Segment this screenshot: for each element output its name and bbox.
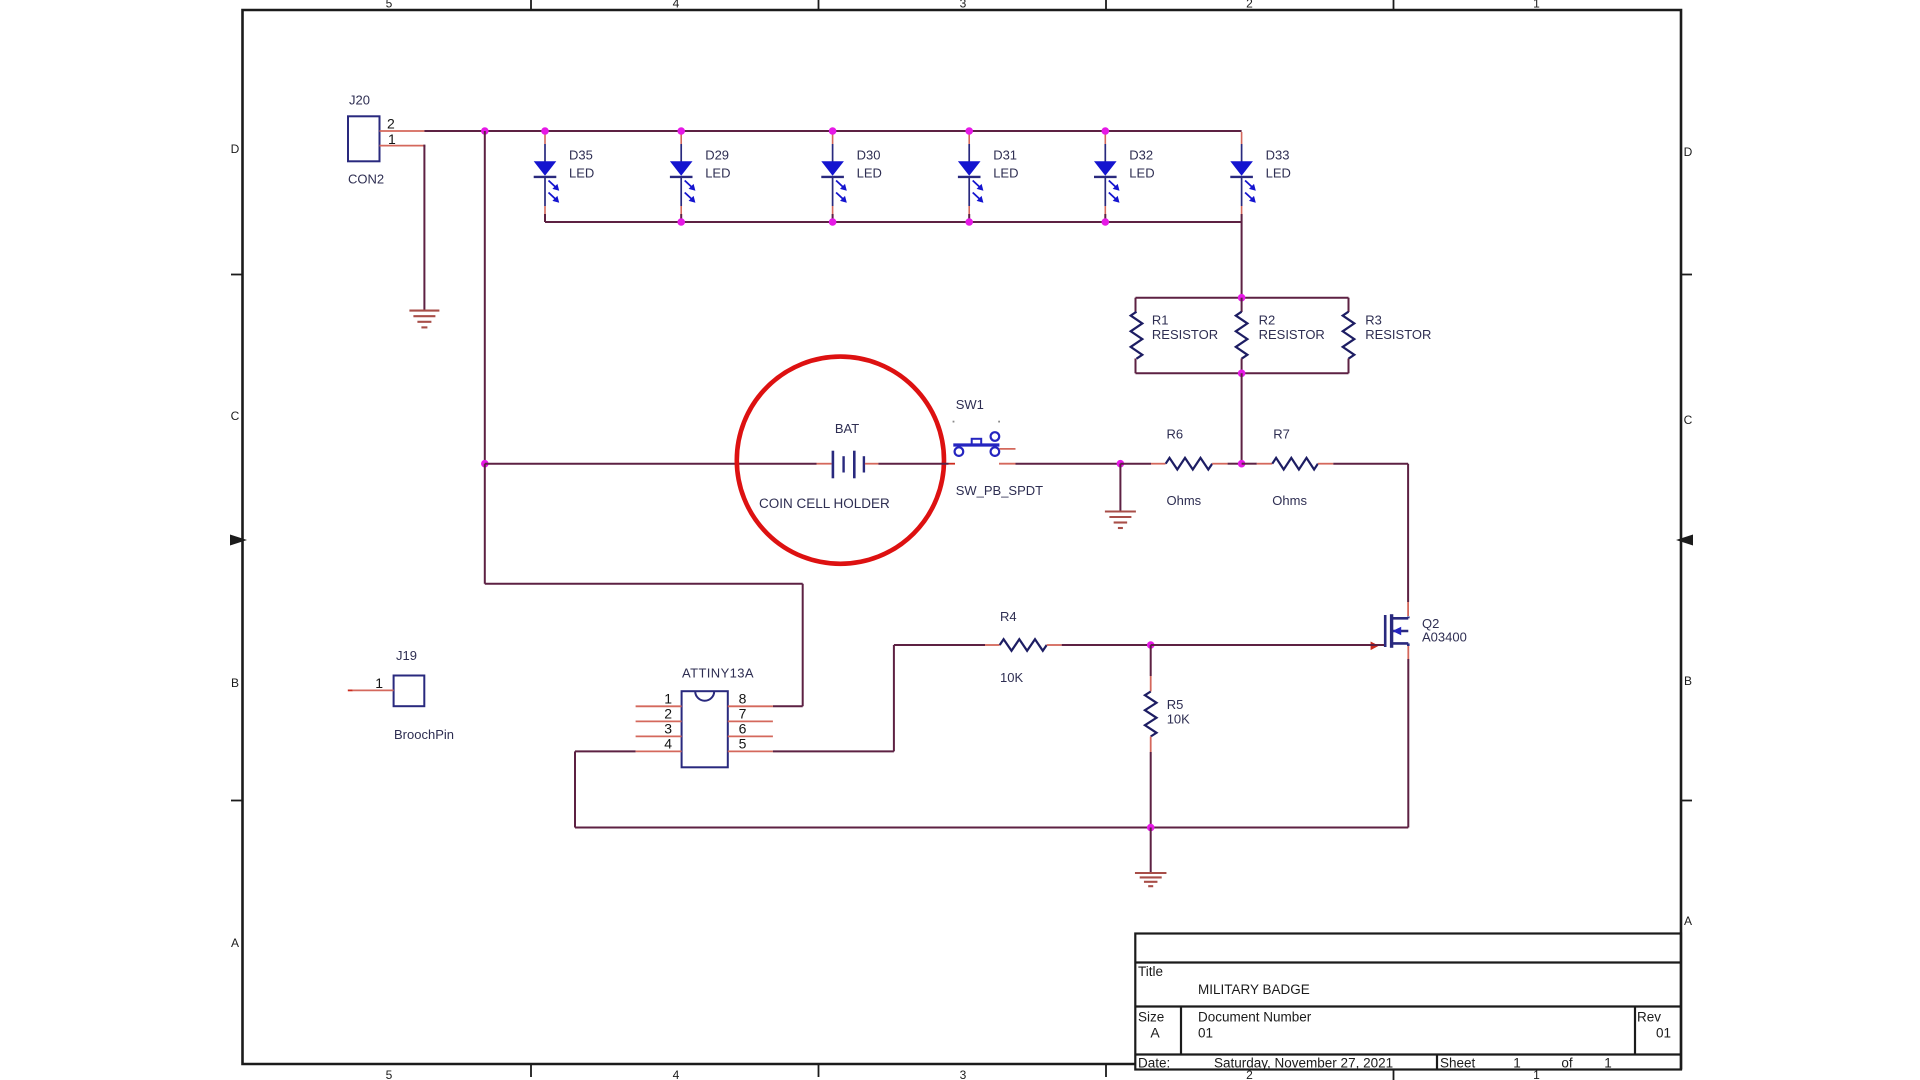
D30 value label LED bbox=[857, 166, 882, 181]
svg-text:1: 1 bbox=[1513, 1056, 1521, 1071]
ATTINY13A pin 8 bbox=[728, 705, 773, 707]
ATTINY13A value label bbox=[682, 666, 754, 681]
wire R bank down to mid rail bbox=[1241, 373, 1243, 463]
R3 refdes label bbox=[1365, 313, 1382, 328]
D29 refdes label bbox=[705, 148, 729, 163]
svg-text:COIN CELL HOLDER: COIN CELL HOLDER bbox=[759, 496, 890, 511]
R3 value label RESISTOR bbox=[1365, 327, 1431, 342]
wire ATTINY pin 4 to bottom rail bbox=[575, 751, 636, 827]
ATTINY13A pin 5 bbox=[728, 750, 773, 752]
svg-text:R7: R7 bbox=[1273, 427, 1290, 442]
svg-text:Rev: Rev bbox=[1637, 1010, 1661, 1025]
J20 refdes label bbox=[349, 93, 370, 108]
svg-text:5: 5 bbox=[386, 1068, 393, 1080]
svg-text:D33: D33 bbox=[1266, 148, 1290, 163]
svg-text:R1: R1 bbox=[1152, 313, 1169, 328]
ATTINY13A pin 1 number bbox=[664, 690, 672, 706]
Q2 gate input red arrow bbox=[1371, 642, 1379, 651]
svg-text:J20: J20 bbox=[349, 93, 370, 108]
junction R bank top bbox=[1238, 294, 1246, 302]
ATTINY13A pin 3 bbox=[636, 735, 682, 737]
svg-text:1: 1 bbox=[1604, 1056, 1612, 1071]
wire battery rail left segment bbox=[485, 463, 832, 465]
BAT value label COIN CELL HOLDER bbox=[759, 496, 890, 511]
svg-text:SW1: SW1 bbox=[956, 397, 984, 412]
svg-text:6: 6 bbox=[739, 720, 747, 736]
IC U1 ATTINY13A body bbox=[682, 691, 728, 767]
junction mid rail at R bank drop bbox=[1238, 460, 1246, 468]
wire D33 cathode rail down to R1R2R3 bank bbox=[1241, 222, 1243, 298]
svg-text:01: 01 bbox=[1198, 1026, 1213, 1041]
junction top rail at D32 bbox=[1102, 127, 1110, 135]
svg-text:of: of bbox=[1561, 1056, 1573, 1071]
svg-text:C: C bbox=[1684, 413, 1693, 427]
wire R1R2R3 top bus bbox=[1136, 298, 1349, 312]
R6 refdes label bbox=[1167, 427, 1184, 442]
svg-text:MILITARY BADGE: MILITARY BADGE bbox=[1198, 982, 1310, 997]
svg-text:1: 1 bbox=[1533, 0, 1540, 11]
resistor R3 bbox=[1343, 312, 1355, 359]
LED D30 bbox=[821, 132, 847, 222]
svg-text:01: 01 bbox=[1656, 1026, 1671, 1041]
ground at bottom rail bbox=[1135, 873, 1167, 886]
R2 refdes label bbox=[1259, 313, 1276, 328]
wire R7 to Q2 drain bbox=[1407, 464, 1409, 616]
J20 pin 2 bbox=[380, 130, 425, 132]
D30 refdes label bbox=[857, 148, 881, 163]
svg-text:A03400: A03400 bbox=[1422, 630, 1467, 645]
svg-text:B: B bbox=[1684, 674, 1692, 688]
svg-text:D35: D35 bbox=[569, 148, 593, 163]
ATTINY13A pin 7 number bbox=[739, 705, 747, 721]
svg-text:5: 5 bbox=[386, 0, 393, 11]
svg-text:1: 1 bbox=[388, 131, 396, 147]
ATTINY13A pin 7 bbox=[728, 720, 773, 722]
title block bbox=[1135, 934, 1681, 1071]
wire battery rail to ATTINY pin 8 bbox=[485, 464, 803, 707]
wire LED anode top rail bbox=[485, 130, 1242, 132]
wire ATTINY pin5 up to R4 bbox=[894, 645, 1000, 751]
LED D32 bbox=[1094, 132, 1120, 222]
junction top rail at D31 bbox=[965, 127, 973, 135]
resistor R1 bbox=[1131, 312, 1143, 359]
R6 value label Ohms bbox=[1167, 493, 1202, 508]
svg-text:7: 7 bbox=[739, 705, 747, 721]
R7 value label Ohms bbox=[1272, 493, 1307, 508]
svg-text:D30: D30 bbox=[857, 148, 881, 163]
svg-text:RESISTOR: RESISTOR bbox=[1259, 327, 1325, 342]
D35 value label LED bbox=[569, 166, 594, 181]
ATTINY13A pin 8 number bbox=[739, 690, 747, 706]
J19 value label BroochPin bbox=[394, 727, 454, 742]
R5 refdes label bbox=[1167, 697, 1184, 712]
D32 refdes label bbox=[1129, 148, 1153, 163]
LED D31 bbox=[958, 132, 984, 222]
svg-text:4: 4 bbox=[673, 0, 680, 11]
svg-text:LED: LED bbox=[569, 166, 594, 181]
resistor R5 bbox=[1145, 645, 1157, 828]
wire R1R2R3 bottom bus bbox=[1136, 359, 1349, 374]
junction mid rail at ground branch bbox=[1117, 460, 1125, 468]
svg-text:BroochPin: BroochPin bbox=[394, 727, 454, 742]
svg-text:4: 4 bbox=[664, 735, 672, 751]
ATTINY13A pin 2 bbox=[636, 720, 682, 722]
svg-text:LED: LED bbox=[705, 166, 730, 181]
svg-text:2: 2 bbox=[387, 115, 395, 131]
connector J20 bbox=[348, 116, 380, 161]
resistor R4 bbox=[1000, 639, 1151, 651]
svg-text:3: 3 bbox=[960, 1068, 967, 1080]
junction bottom rail at D31 bbox=[965, 218, 973, 226]
junction top rail at D35 bbox=[541, 127, 549, 135]
svg-text:LED: LED bbox=[1266, 166, 1291, 181]
R1 refdes label bbox=[1152, 313, 1169, 328]
ATTINY13A pin 4 number bbox=[664, 735, 672, 751]
junction bottom rail at D29 bbox=[677, 218, 685, 226]
ATTINY13A pin 1 bbox=[636, 705, 682, 707]
svg-text:Size: Size bbox=[1138, 1010, 1164, 1025]
svg-text:1: 1 bbox=[664, 690, 672, 706]
J20 pin 2 number bbox=[387, 115, 395, 131]
Q2 refdes label bbox=[1422, 616, 1439, 631]
SW1 value label SW_PB_SPDT bbox=[956, 483, 1043, 498]
R4 value label 10K bbox=[1000, 670, 1023, 685]
wire LED cathode bottom rail bbox=[545, 221, 1242, 223]
wire bottom ground rail bbox=[575, 827, 1408, 829]
BAT refdes label bbox=[835, 421, 859, 436]
J20 pin 1 number bbox=[388, 131, 396, 147]
svg-text:8: 8 bbox=[739, 690, 747, 706]
LED D29 bbox=[670, 132, 696, 222]
svg-text:RESISTOR: RESISTOR bbox=[1152, 327, 1218, 342]
wire bottom rail down to ground bbox=[1150, 828, 1152, 873]
ground at switch net bbox=[1105, 512, 1136, 529]
wire J20 pin 2 to LED top rail bbox=[424, 130, 484, 132]
ATTINY13A pin 5 number bbox=[739, 735, 747, 751]
svg-text:D31: D31 bbox=[993, 148, 1017, 163]
wire Q2 source down to bottom rail bbox=[1407, 646, 1409, 828]
svg-text:CON2: CON2 bbox=[348, 172, 384, 187]
svg-text:2: 2 bbox=[664, 705, 672, 721]
svg-text:Saturday, November 27, 2021: Saturday, November 27, 2021 bbox=[1214, 1056, 1393, 1071]
svg-text:J19: J19 bbox=[396, 648, 417, 663]
svg-text:Date:: Date: bbox=[1138, 1056, 1170, 1071]
wire battery right to switch bbox=[865, 463, 955, 465]
svg-text:D29: D29 bbox=[705, 148, 729, 163]
svg-text:R3: R3 bbox=[1365, 313, 1382, 328]
red highlight circle annotation bbox=[737, 357, 944, 564]
ATTINY13A pin 3 number bbox=[664, 720, 672, 736]
battery BAT coin cell bbox=[833, 451, 864, 479]
svg-text:10K: 10K bbox=[1167, 711, 1190, 726]
svg-text:2: 2 bbox=[1246, 0, 1253, 11]
svg-text:A: A bbox=[1684, 914, 1692, 928]
svg-text:Title: Title bbox=[1138, 964, 1163, 979]
svg-text:R4: R4 bbox=[1000, 609, 1017, 624]
J20 pin 1 bbox=[380, 145, 425, 147]
svg-text:LED: LED bbox=[1129, 166, 1154, 181]
J20 value label CON2 bbox=[348, 172, 384, 187]
connector J19 bbox=[394, 676, 425, 707]
wire J20 pin 1 down to ground bbox=[423, 145, 425, 310]
junction bottom rail at R5 bbox=[1147, 824, 1155, 832]
SW1 pin stub right bbox=[999, 448, 1015, 450]
svg-text:R5: R5 bbox=[1167, 697, 1184, 712]
ATTINY13A pin 2 number bbox=[664, 705, 672, 721]
wire ATTINY pin 5 stub extension bbox=[773, 750, 894, 752]
J19 refdes label bbox=[396, 648, 417, 663]
wire switch to R6 bbox=[999, 463, 1120, 465]
svg-text:Sheet: Sheet bbox=[1440, 1056, 1476, 1071]
Q2 value label A03400 bbox=[1422, 630, 1467, 645]
R7 refdes label bbox=[1273, 427, 1290, 442]
svg-text:SW_PB_SPDT: SW_PB_SPDT bbox=[956, 483, 1043, 498]
resistor R6 bbox=[1120, 458, 1241, 470]
transistor Q2 A03400 MOSFET bbox=[1385, 614, 1408, 648]
svg-text:LED: LED bbox=[857, 166, 882, 181]
LED D35 bbox=[534, 132, 560, 222]
wire top rail branch down to battery rail bbox=[484, 131, 486, 464]
D32 value label LED bbox=[1129, 166, 1154, 181]
SW1 refdes label bbox=[956, 397, 984, 412]
svg-text:D: D bbox=[231, 142, 240, 156]
D35 refdes label bbox=[569, 148, 593, 163]
resistor R7 bbox=[1242, 458, 1409, 470]
svg-text:4: 4 bbox=[673, 1068, 680, 1080]
svg-text:Ohms: Ohms bbox=[1167, 493, 1202, 508]
svg-text:A: A bbox=[231, 936, 239, 950]
svg-text:A: A bbox=[1150, 1025, 1160, 1041]
D33 value label LED bbox=[1266, 166, 1291, 181]
svg-text:LED: LED bbox=[993, 166, 1018, 181]
J19 pin 1 number bbox=[375, 675, 383, 691]
svg-text:D32: D32 bbox=[1129, 148, 1153, 163]
D29 value label LED bbox=[705, 166, 730, 181]
resistor R2 bbox=[1236, 298, 1248, 374]
junction bottom rail at D30 bbox=[829, 218, 837, 226]
junction battery rail left bbox=[481, 460, 489, 468]
R1 value label RESISTOR bbox=[1152, 327, 1218, 342]
D31 refdes label bbox=[993, 148, 1017, 163]
svg-text:ATTINY13A: ATTINY13A bbox=[682, 666, 754, 681]
svg-text:Document Number: Document Number bbox=[1198, 1010, 1312, 1025]
svg-text:BAT: BAT bbox=[835, 421, 859, 436]
junction R4 / R5 node bbox=[1147, 641, 1155, 649]
ground at J20 pin 1 bbox=[409, 311, 439, 328]
svg-text:10K: 10K bbox=[1000, 670, 1023, 685]
ATTINY13A pin 6 bbox=[728, 735, 773, 737]
svg-text:3: 3 bbox=[664, 720, 672, 736]
svg-text:Ohms: Ohms bbox=[1272, 493, 1307, 508]
D31 value label LED bbox=[993, 166, 1018, 181]
switch SW1 SW_PB_SPDT bbox=[953, 421, 1000, 456]
J19 pin 1 bbox=[348, 689, 394, 691]
svg-text:D: D bbox=[1684, 145, 1693, 159]
ATTINY13A pin 4 bbox=[636, 750, 682, 752]
svg-text:RESISTOR: RESISTOR bbox=[1365, 327, 1431, 342]
svg-text:C: C bbox=[231, 409, 240, 423]
svg-text:1: 1 bbox=[375, 675, 383, 691]
D33 refdes label bbox=[1266, 148, 1290, 163]
svg-text:R2: R2 bbox=[1259, 313, 1276, 328]
junction top rail at D29 bbox=[677, 127, 685, 135]
wire R4 node to Q2 gate bbox=[1151, 644, 1384, 646]
svg-text:B: B bbox=[231, 676, 239, 690]
svg-text:3: 3 bbox=[960, 0, 967, 11]
ATTINY13A pin 6 number bbox=[739, 720, 747, 736]
junction top rail at D30 bbox=[829, 127, 837, 135]
R4 refdes label bbox=[1000, 609, 1017, 624]
wire junction down to ground bbox=[1119, 464, 1121, 511]
junction top rail / battery branch bbox=[481, 127, 489, 135]
svg-text:R6: R6 bbox=[1167, 427, 1184, 442]
svg-text:5: 5 bbox=[739, 735, 747, 751]
R2 value label RESISTOR bbox=[1259, 327, 1325, 342]
R5 value label 10K bbox=[1167, 711, 1190, 726]
junction bottom rail at D32 bbox=[1102, 218, 1110, 226]
junction R bank bottom bbox=[1238, 370, 1246, 378]
LED D33 bbox=[1230, 132, 1256, 222]
